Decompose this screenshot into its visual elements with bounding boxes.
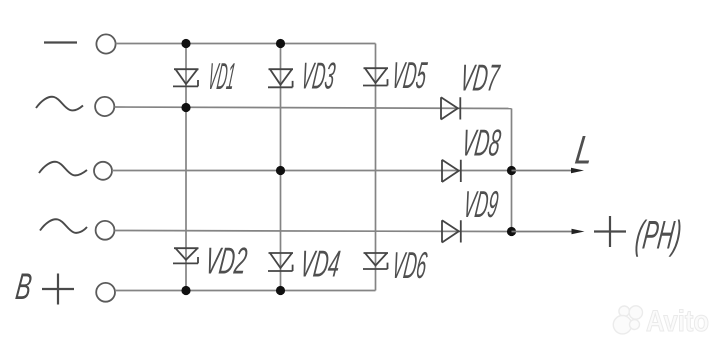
plus symbol (battery positive) xyxy=(42,274,74,305)
terminal X1 xyxy=(96,34,115,53)
diode VD4 xyxy=(268,253,293,271)
diode VD6 xyxy=(363,253,388,269)
wire column 2 xyxy=(280,44,282,291)
wire row4 (phase 3 to VD9 and output) xyxy=(115,231,512,232)
tilde symbol (AC phase 3) xyxy=(40,219,87,233)
junction row3-col2 xyxy=(276,166,285,175)
wire column 3 xyxy=(375,44,377,291)
wire row5 (positive bus) xyxy=(115,290,376,292)
diode VD3 xyxy=(268,69,293,87)
terminal X3 xyxy=(94,162,112,180)
terminal X2 xyxy=(95,97,114,116)
svg-text:(PH): (PH) xyxy=(633,213,684,258)
diode VD7 xyxy=(441,97,460,119)
terminal X5 xyxy=(96,283,115,302)
junction bus-VD8 xyxy=(507,166,516,175)
wire column 1 xyxy=(185,44,187,291)
plus symbol (output positive) xyxy=(594,216,626,247)
svg-text:VD6: VD6 xyxy=(390,244,430,286)
svg-text:VD7: VD7 xyxy=(458,57,503,99)
wire output bus (VD7/VD8/VD9 cathodes) xyxy=(511,109,513,232)
minus symbol (phase input marker) xyxy=(44,41,77,43)
svg-text:Avito: Avito xyxy=(646,305,709,338)
tilde symbol (AC phase 2) xyxy=(39,162,87,176)
svg-text:VD3: VD3 xyxy=(299,55,338,97)
svg-text:VD2: VD2 xyxy=(203,240,250,282)
wire row1 (negative bus) xyxy=(116,43,376,45)
diode VD9 xyxy=(442,220,461,242)
terminal X4 xyxy=(96,221,115,240)
diode VD5 xyxy=(363,68,388,85)
svg-text:VD4: VD4 xyxy=(298,243,343,285)
junction row5-col1 xyxy=(181,286,190,295)
svg-text:VD9: VD9 xyxy=(461,183,501,225)
diode VD2 xyxy=(173,248,199,263)
wire row3 (phase 2 to VD8) xyxy=(112,170,512,172)
wire output L arrow xyxy=(512,168,585,173)
svg-text:VD5: VD5 xyxy=(389,54,429,96)
diode VD8 xyxy=(442,160,461,182)
junction bus-VD9 xyxy=(507,227,516,236)
junction row2-col1 xyxy=(181,103,190,112)
svg-text:VD8: VD8 xyxy=(459,122,503,164)
wire output PH arrow xyxy=(512,229,585,234)
wire row2 (phase 1 to VD7) xyxy=(115,107,512,109)
watermark Avito logo xyxy=(613,306,642,334)
junction row1-col2 xyxy=(276,39,285,48)
diode VD1 xyxy=(173,69,199,86)
junction row5-col2 xyxy=(276,286,285,295)
tilde symbol (AC phase 1) xyxy=(36,97,83,111)
junction row1-col1 xyxy=(181,39,190,48)
